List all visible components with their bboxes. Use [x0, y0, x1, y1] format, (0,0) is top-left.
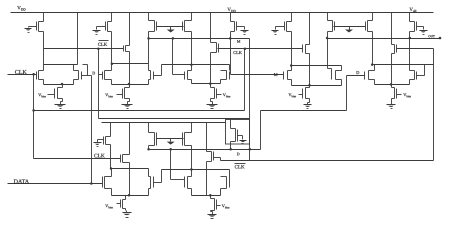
transistor T6m cross [221, 71, 230, 80]
node T5mb drain [190, 168, 193, 171]
ground M4 gate [241, 29, 249, 35]
ground Pb pair gates [167, 139, 175, 145]
node Q at M4 drain [229, 37, 232, 40]
wire M5 gate stub [275, 27, 277, 29]
label CLK input [15, 70, 27, 74]
wire CLK down left [33, 75, 35, 159]
T2 gate staircase [83, 64, 88, 66]
wire source line D latch [375, 84, 410, 86]
node tail 2 [128, 83, 131, 86]
wire M2 gate stub down [96, 27, 98, 29]
wire tail4 top [309, 86, 311, 88]
wire TD gate to feedback [397, 48, 434, 50]
wire M4b gate [238, 135, 243, 137]
wire T6mb source down [220, 189, 222, 196]
wire TB2 top to B3 [206, 123, 208, 152]
wire TD source to D-latch tail [391, 54, 393, 85]
label CLKbar [99, 40, 109, 42]
wire TB source down to tail node [210, 53, 212, 84]
node D center tap [169, 148, 172, 151]
transistor T4b [149, 177, 154, 189]
wire M6a drain down [327, 32, 329, 39]
wire T4 source down [148, 80, 150, 85]
pmos Pb2 [183, 133, 192, 146]
wire M net down to M-latch input [230, 39, 232, 75]
node D at M4b drain [229, 148, 232, 151]
wire CLKbar line [44, 48, 124, 50]
pmos M5 [285, 22, 292, 32]
wire T5 drain up [291, 66, 293, 71]
VDD label left [17, 6, 25, 10]
wire M2b drain down [110, 145, 112, 169]
wire tail b1 gate [117, 203, 121, 205]
wire M2b gate stub [97, 140, 99, 141]
wire M3b drain down to cross node [191, 32, 193, 65]
wire tail5 gate [397, 94, 402, 96]
transistor tail3 bias [211, 88, 217, 99]
wire Pb2 drain down to cross node [191, 146, 193, 170]
wire M2 drain down [111, 32, 113, 64]
wire drain link bottom-left [111, 168, 149, 170]
wire T1 source down [43, 80, 45, 85]
wire feedback riser right [433, 49, 435, 161]
wire T3 source down [111, 80, 113, 85]
wire T5m source down [191, 80, 193, 84]
node D to feedback [249, 148, 252, 151]
wire T2 drain to VDD link [44, 64, 78, 66]
wire T7 drain up [374, 65, 376, 71]
transistor T6mb cross [221, 177, 230, 189]
transistor T6 [332, 71, 342, 80]
ground M2b gate [94, 141, 102, 147]
node D at Pb1 drain [147, 148, 150, 151]
wire T3b source down [111, 189, 113, 196]
wire M4b drain down [230, 142, 232, 150]
wire T6m source down [220, 80, 222, 84]
label Vbias4 [288, 93, 295, 97]
wire Q to T5m gate [173, 74, 185, 76]
wire tail5 top [391, 85, 393, 88]
pmos M2 [106, 22, 112, 32]
transistor TB2 switch [207, 152, 214, 162]
wire cross link bottom [162, 169, 230, 171]
pmos M1 [37, 22, 44, 32]
wire cross link [162, 64, 230, 66]
node M5 drain [290, 64, 293, 67]
wire T5mb drain up [191, 170, 193, 177]
wire tail4 to ground [309, 99, 311, 103]
VDD label middle [227, 8, 235, 12]
wire CLK bottom line [34, 158, 121, 160]
wire cross link D latch [373, 64, 434, 66]
wire tail1 gate [48, 94, 55, 96]
wire M3a source to rail [148, 13, 150, 21]
node OUT at M6a drain [326, 37, 329, 40]
transistor T1 clk input [37, 71, 44, 80]
wire source line mid-left [112, 84, 149, 86]
wire tail4 gate [299, 94, 303, 96]
wire tail2 top [129, 85, 131, 88]
wire DATA riser down [91, 76, 93, 184]
wire T4 drain up [148, 64, 150, 71]
wire source line bottom-right [192, 195, 221, 197]
node CLKbar junction [97, 47, 100, 50]
wire D row riser [260, 111, 262, 150]
label DATA [14, 179, 29, 183]
wire TB2 down to tail [206, 162, 208, 196]
wire tail b2 gate [217, 205, 221, 207]
transistor tail4 bias [303, 88, 310, 99]
ground M7 gate [420, 29, 428, 35]
wire B1 riser [244, 49, 246, 111]
enclosure box M4b [226, 120, 250, 145]
wire tail3 to ground [210, 99, 212, 102]
wire tail2 gate [117, 94, 123, 96]
node OUT at M7 drain [409, 37, 412, 40]
wire tail3 top [210, 84, 212, 88]
label Vbias3 [223, 93, 230, 97]
T4b gate staircase [154, 182, 162, 184]
node M2 drain [111, 62, 114, 64]
wire M1 drain down to T1 drain [43, 32, 45, 71]
transistor T2 reference [74, 71, 82, 80]
wire node M output line [149, 38, 250, 40]
wire M2 source to rail [111, 13, 113, 22]
pmos M4b [231, 129, 238, 142]
wire tail3 gate [217, 94, 222, 96]
wire Q drop right [249, 39, 251, 150]
ground tail5 [387, 103, 396, 109]
wire D riser to T7 gate [346, 76, 348, 111]
wire TB2 gate drop [220, 158, 222, 161]
wire TA2 top to B3 [129, 123, 131, 155]
wire M3a drain to T4 stub [148, 39, 150, 64]
wire T6 source down [341, 80, 343, 86]
wire M5 gate [276, 26, 285, 28]
wire M input [231, 74, 284, 76]
label Vbias5 [403, 93, 410, 97]
wire M7 drain to OUT [409, 32, 411, 39]
wire CLK line to TC gate [245, 48, 303, 50]
wire M4 gate stub [244, 27, 246, 29]
wire T2 drain stub [73, 65, 75, 71]
wire T3b drain up [111, 169, 113, 177]
wire CLKbar feedback line [221, 160, 434, 162]
transistor T5m cross [185, 71, 192, 80]
ground M6 pair gates [345, 27, 353, 33]
wire tail b1 top [125, 196, 127, 200]
pmos M6a [328, 21, 335, 32]
node tail 5 [390, 83, 393, 86]
wire T1T2 source line [44, 84, 74, 86]
label D net [237, 153, 240, 156]
transistor T7 D-input [365, 71, 375, 80]
wire D down to T5mb gate [170, 150, 172, 180]
ground tail b2 [208, 213, 217, 219]
node DATA tee [90, 182, 93, 185]
wire tail1 top [62, 85, 64, 88]
wire CLK input [8, 74, 37, 76]
wire T7 source down [374, 80, 376, 85]
wire M3a drain down [148, 32, 150, 39]
node OUT port [439, 37, 442, 40]
wire M5 source to rail [291, 13, 293, 22]
transistor T3b data input [103, 177, 112, 189]
node CLK junction [244, 47, 247, 50]
node T5m drain [190, 64, 193, 67]
wire T5 source down [291, 80, 293, 86]
ground tail b1 [123, 211, 132, 218]
wire M4b source up [230, 120, 232, 129]
pmos M4 [231, 22, 237, 32]
wire M2b gate [98, 139, 104, 141]
wire T5mb source down [191, 189, 193, 196]
wire Q down to T5m gate [172, 39, 174, 75]
wire Pb pair gates [157, 138, 184, 140]
wire T2 source down [73, 80, 75, 85]
wire source line bottom-left [112, 195, 149, 197]
wire M6a drain down to T6 gate feed [327, 39, 329, 69]
wire tail b1 to ground [125, 209, 127, 211]
pmos M6b [366, 21, 373, 32]
wire M3 pair gates [157, 26, 184, 28]
wire TA drain to rail [129, 13, 131, 46]
node M2b drain [110, 167, 113, 170]
wire TD drain to rail [391, 13, 393, 45]
wire TC source to M-latch tail [309, 54, 311, 86]
wire B1 CLK bus [34, 110, 245, 112]
wire DATA input [8, 183, 103, 185]
pmos Pb1 [149, 133, 157, 146]
T4 gate staircase [154, 75, 162, 77]
wire M6b source to rail [372, 13, 374, 21]
wire VDD drop [77, 13, 79, 65]
label OUT [428, 35, 434, 37]
node tail 4 [308, 84, 311, 87]
VDD label right [409, 8, 416, 12]
transistor TD switch [392, 45, 397, 54]
node CLK at B1 [32, 109, 35, 112]
node Q center tap [172, 37, 175, 40]
transistor tail b1 bias [121, 200, 126, 209]
label CLKbar bottom [235, 163, 246, 165]
node tail 3 [209, 82, 212, 85]
transistor T5mb cross [185, 177, 192, 189]
wire cross link M latch [292, 65, 342, 67]
transistor tail5 bias [392, 88, 397, 99]
wire Pb1 source to B3 [148, 123, 150, 133]
label D input [356, 71, 359, 74]
node Q at M3a drain [147, 37, 150, 40]
wire T2 gate to DATA riser [82, 75, 92, 77]
label Vbias2 [105, 93, 112, 97]
wire Pb1 drain down [148, 146, 150, 150]
wire T8 source down [409, 80, 411, 85]
transistor tail b2 bias [211, 199, 217, 211]
wire M7 drain down to T8 [409, 39, 411, 71]
wire CLKbar/Q riser [98, 49, 100, 119]
wire node D output row [149, 149, 261, 151]
wire M4 source to rail [230, 13, 232, 22]
ground M1 gate [25, 27, 32, 33]
wire B2 Q bus [99, 118, 250, 120]
label D at T2 gate [92, 72, 95, 75]
wire M6 pair gates [334, 26, 366, 28]
wire tail1 to ground [62, 99, 64, 102]
wire T3 gate feed [99, 74, 103, 76]
wire TA2 down to tail [129, 163, 131, 196]
label CLK bottom [94, 154, 105, 158]
wire M4b gate stub [242, 136, 244, 139]
pmos M2b [104, 137, 111, 145]
wire T3 drain up [111, 64, 113, 71]
wire TB2 gate [214, 157, 221, 159]
wire to T6 gate [328, 68, 332, 70]
wire B3 supply bus [102, 122, 226, 124]
ground M5 gate [272, 29, 279, 35]
node M6b drain [371, 63, 374, 66]
wire TB drain to rail [210, 13, 212, 43]
wire T6 drain up [341, 66, 343, 71]
wire D to feedback line [249, 150, 251, 161]
ground tail1 [55, 103, 66, 109]
node CLK input tee [32, 73, 35, 76]
transistor T3 input [103, 71, 112, 80]
label Vbias b2 [222, 205, 229, 209]
transistor TC clocked switch [303, 45, 310, 54]
wire drain link left [112, 63, 149, 65]
transistor T4 input [149, 71, 154, 80]
transistor tail2 bias [123, 88, 130, 99]
wire M5 drain down [291, 32, 293, 66]
wire tail5 to ground [391, 99, 393, 103]
VDD rail [11, 12, 434, 14]
wire D to right [261, 110, 347, 112]
wire source line M latch [292, 85, 342, 87]
wire M3b source to rail [191, 13, 193, 21]
label CLK [233, 51, 242, 54]
wire M7 source to rail [409, 13, 411, 22]
ground M4b gate [240, 139, 247, 144]
transistor TA clocked switch [124, 46, 130, 52]
wire M7 gate [417, 26, 424, 28]
T8 gate staircase [417, 75, 425, 77]
pmos M3a [149, 21, 157, 32]
label Vbias1 [38, 93, 45, 97]
label M net [237, 40, 240, 42]
node tail b2 [209, 194, 212, 197]
wire M7 gate stub [423, 27, 425, 29]
wire M6b drain down to cross node [372, 32, 374, 65]
wire TA source down to tail node [129, 52, 131, 85]
wire M2 gate [97, 26, 106, 28]
label M input [274, 73, 278, 76]
label Vbias b1 [105, 204, 112, 208]
node tail 1 [61, 83, 64, 86]
wire M2b source to B3 [110, 123, 112, 137]
ground M2 gate [93, 29, 101, 35]
wire source line mid-right [192, 83, 221, 85]
wire T6 gate bar ext [331, 69, 333, 72]
wire M4 gate [237, 26, 245, 28]
wire OUT line [328, 38, 441, 40]
pmos M3b [183, 21, 192, 32]
wire tail2 to ground [129, 99, 131, 102]
ground tail4 [304, 103, 312, 109]
wire M1 gate [29, 26, 37, 28]
node tail b1 [128, 194, 131, 197]
transistor TA2 switch [121, 155, 130, 163]
wire D input [347, 75, 365, 77]
wire Pb2 source to B3 [191, 123, 193, 133]
wire tail b2 top [210, 196, 212, 199]
transistor T8 [410, 71, 417, 80]
ground tail3 [207, 103, 218, 109]
wire T6mb gate up [229, 170, 231, 177]
wire M1 source to rail [43, 13, 45, 22]
transistor tail1 bias [55, 88, 63, 99]
wire T4b source down [148, 189, 150, 196]
transistor TB clocked switch [211, 43, 219, 53]
wire D to T5mb gate link [171, 179, 185, 181]
wire tail b2 to ground [210, 211, 212, 212]
wire T4b drain up [148, 169, 150, 177]
wire CLK line TB gate [218, 48, 245, 50]
ground M3 pair gates [167, 27, 175, 33]
wire T6m gate up [229, 65, 231, 71]
wire T5m drain up [191, 65, 193, 71]
wire M6a source to rail [327, 13, 329, 21]
wire TC drain to rail [309, 13, 311, 45]
ground tail2 [122, 103, 133, 109]
transistor T5 M-input [284, 71, 292, 80]
pmos M7 [410, 22, 417, 32]
wire M4 drain down [230, 32, 232, 39]
